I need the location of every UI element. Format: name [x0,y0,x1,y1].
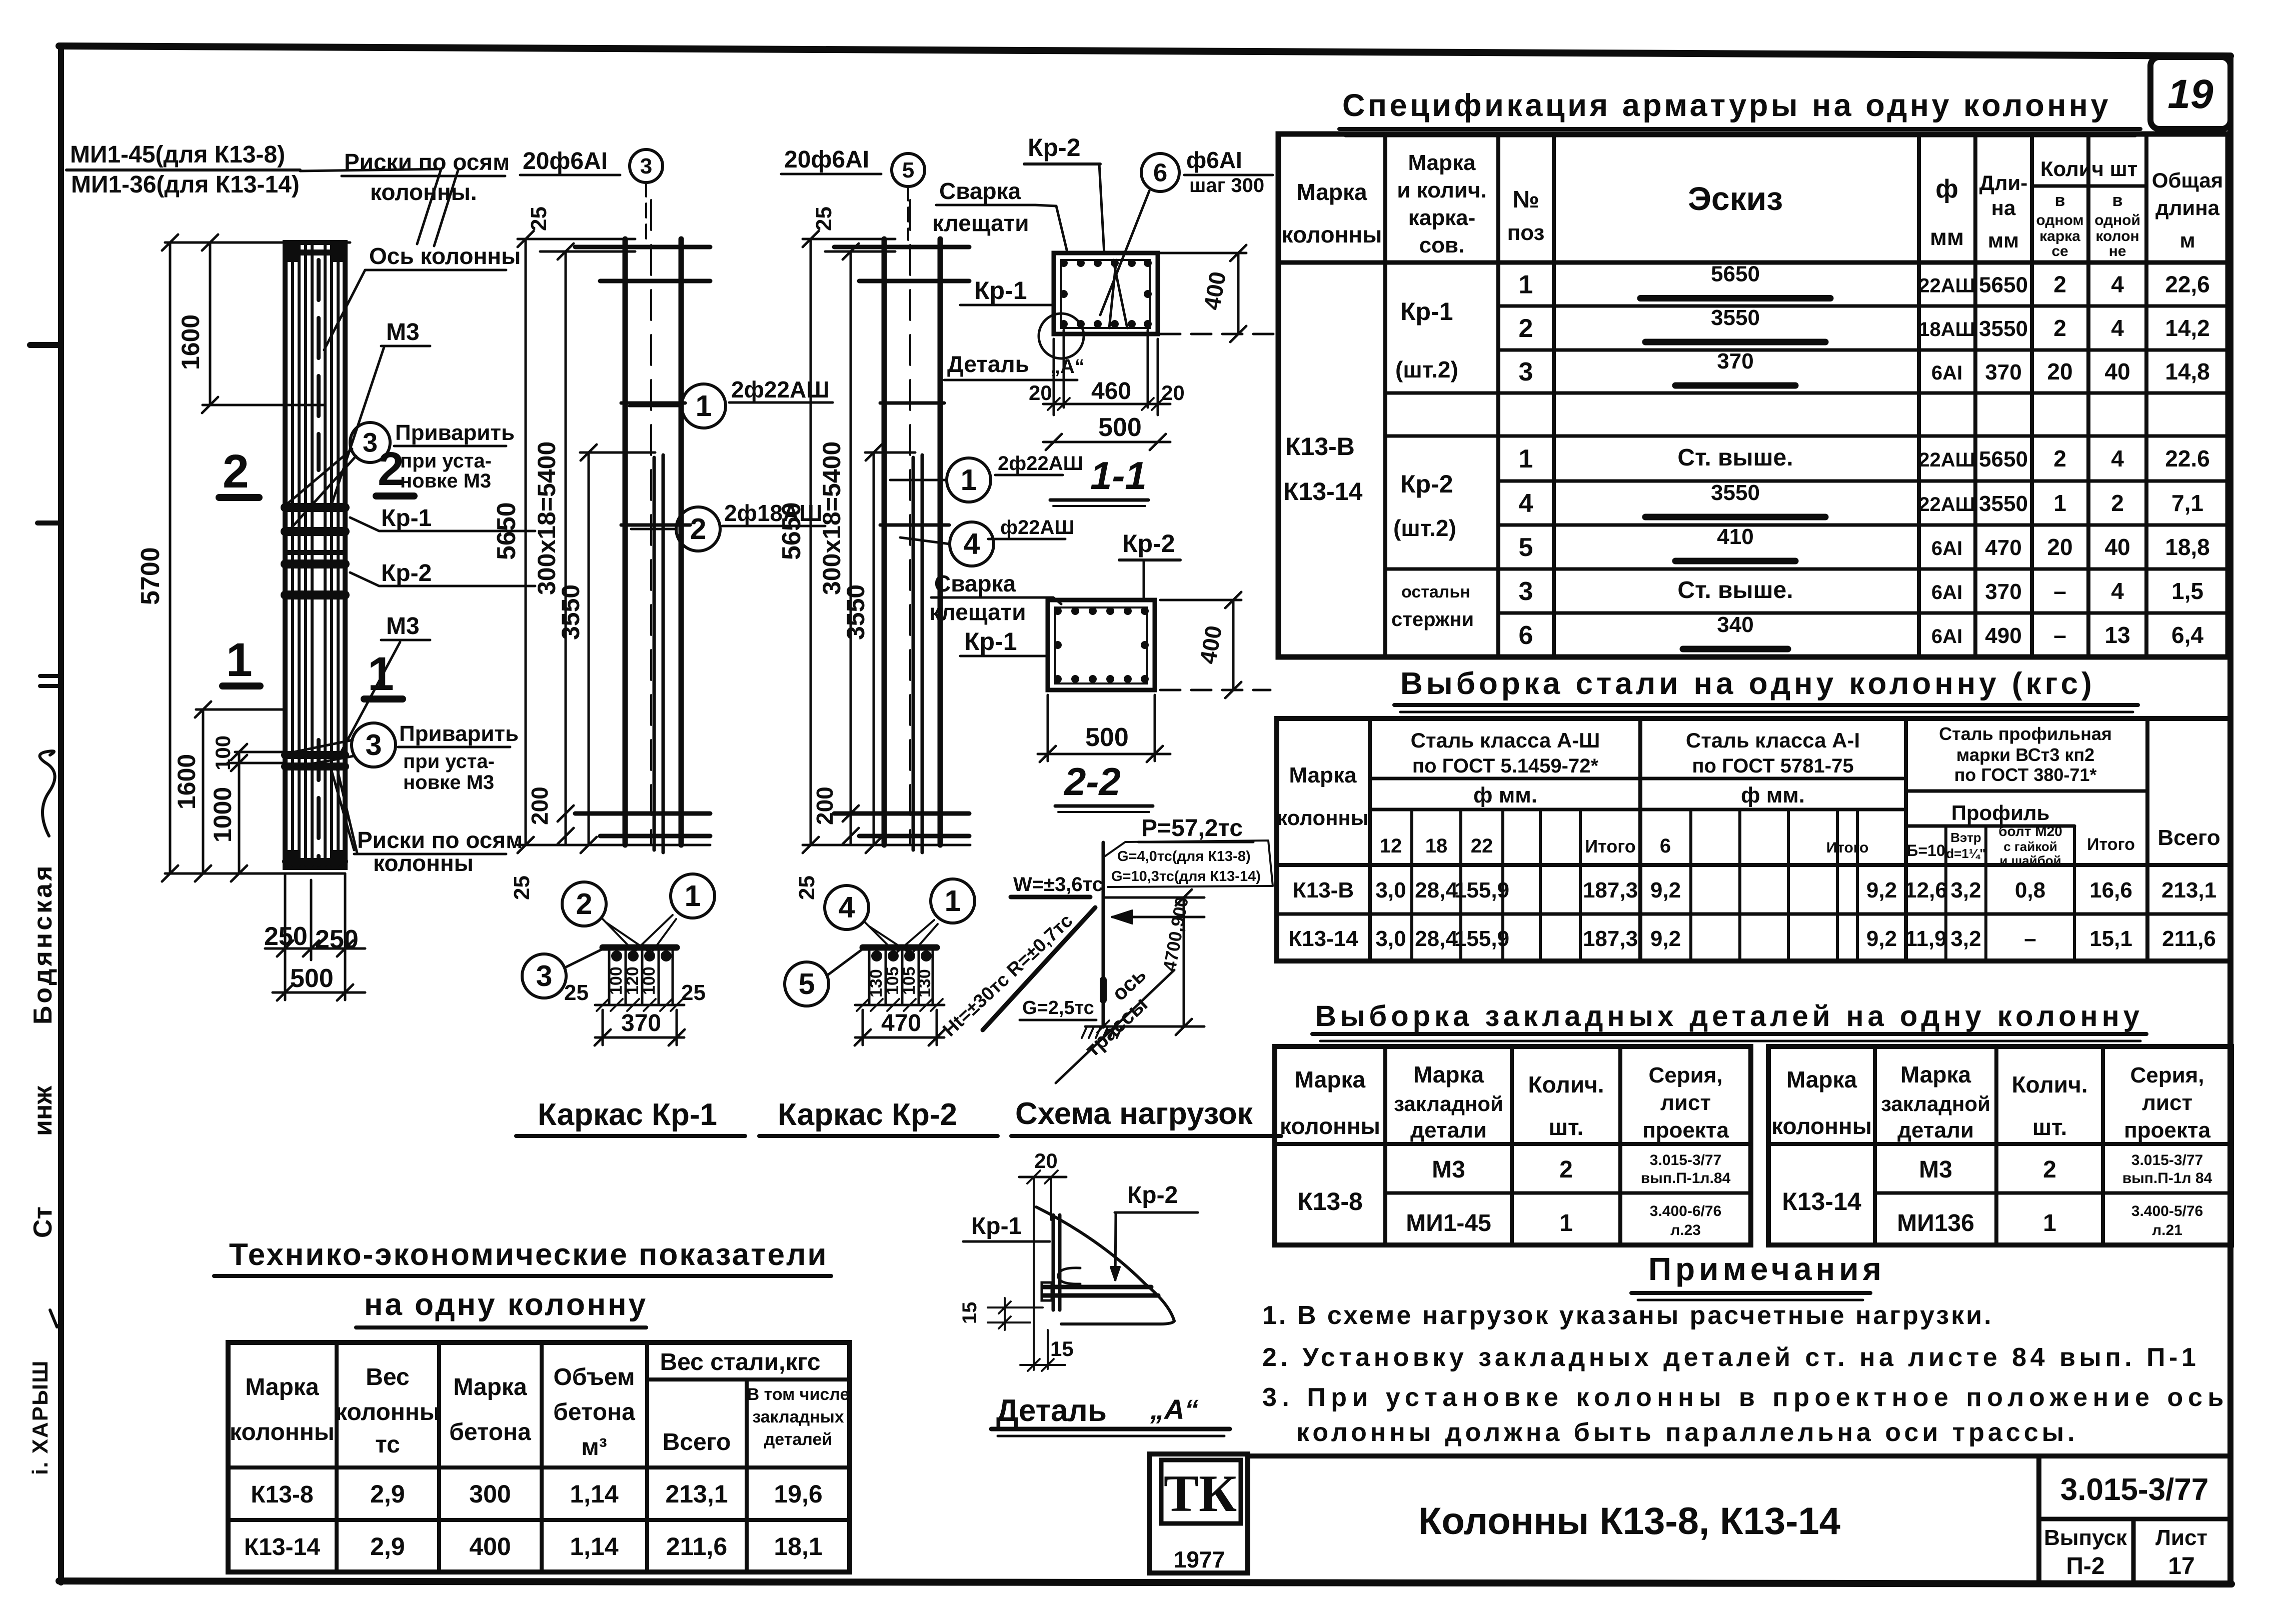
svg-text:Колонны К13-8, К13-14: Колонны К13-8, К13-14 [1418,1500,1840,1542]
svg-text:3.015-3/77: 3.015-3/77 [2131,1152,2203,1168]
svg-text:5: 5 [902,158,914,182]
dim 20 460 20 below 1-1 [1053,339,1055,415]
svg-text:Приварить: Приварить [395,420,515,445]
balloon 3 end view [522,954,566,998]
svg-text:с гайкой: с гайкой [2003,839,2057,854]
spec table header bottom [1278,260,2228,265]
svg-text:сов.: сов. [1419,233,1465,257]
svg-text:МИ1-45: МИ1-45 [1406,1210,1491,1236]
svg-text:4: 4 [1519,489,1533,518]
dimension 500 [273,991,365,994]
svg-text:Общая: Общая [2152,168,2223,192]
column band bottom risk marks [286,858,345,865]
leader lines end view [603,919,633,950]
svg-text:370: 370 [1717,349,1753,373]
svg-text:13: 13 [2104,622,2130,648]
svg-text:4: 4 [2111,445,2124,471]
svg-text:Вэтр: Вэтр [1950,830,1981,845]
detail A reference vertical long [1033,1177,1035,1370]
svg-text:ф мм.: ф мм. [1741,783,1805,807]
column bands Kp zone [285,503,345,512]
svg-text:по ГОСТ 380-71*: по ГОСТ 380-71* [1954,764,2097,785]
svg-text:Кр-1: Кр-1 [974,276,1027,304]
svg-text:6АІ: 6АІ [1931,362,1962,384]
svg-text:болт М20: болт М20 [1998,823,2062,839]
svg-text:6,4: 6,4 [2171,622,2203,648]
svg-text:6АІ: 6АІ [1931,537,1962,559]
svg-text:Марка: Марка [1900,1061,1971,1087]
svg-text:1: 1 [226,633,253,686]
Выборка стали header horizontals [1370,777,1906,780]
svg-text:18,1: 18,1 [774,1532,822,1560]
svg-text:м: м [2179,228,2195,252]
svg-text:марки ВСт3 кп2: марки ВСт3 кп2 [1956,744,2094,765]
svg-text:Сварка: Сварка [939,178,1021,204]
load diagonal Ht [983,907,1095,1030]
svg-text:поз: поз [1507,220,1545,245]
svg-text:ф22АШ: ф22АШ [1000,516,1075,538]
svg-text:Всего: Всего [663,1429,731,1455]
svg-text:9,2: 9,2 [1866,878,1897,902]
svg-text:Деталь: Деталь [996,1393,1107,1428]
svg-text:2: 2 [1519,314,1533,343]
svg-text:колонны должна быть параллельн: колонны должна быть параллельна оси трас… [1296,1418,2078,1447]
svg-text:1: 1 [1559,1210,1573,1236]
svg-text:колонны: колонны [373,850,474,876]
svg-text:2: 2 [2053,271,2066,297]
Кр-2 end view dim 470 [855,1036,944,1039]
svg-text:в: в [2112,191,2123,210]
Выборка стали class header verticals [1368,718,1372,961]
svg-text:одной: одной [2094,212,2140,228]
margin tick 1 [30,342,61,348]
svg-text:Сталь профильная: Сталь профильная [1939,723,2112,744]
svg-text:130: 130 [915,969,934,997]
svg-text:155,9: 155,9 [1454,926,1509,951]
svg-text:Лист: Лист [2155,1525,2207,1550]
svg-text:5: 5 [799,967,815,1000]
svg-text:2: 2 [2111,490,2124,516]
svg-text:Профиль: Профиль [1951,801,2050,824]
svg-text:Итого: Итого [2087,835,2135,854]
svg-text:370: 370 [1985,360,2021,384]
svg-text:остальн: остальн [1401,582,1470,601]
закладные header bottom [1275,1142,1751,1146]
margin signature [40,751,55,836]
section 2-2 outline [1048,600,1155,690]
svg-text:15: 15 [959,1302,981,1324]
svg-text:20: 20 [1161,381,1185,404]
svg-text:200: 200 [812,786,838,825]
svg-text:3: 3 [363,427,378,457]
dim chain Кр-2 300x18 [850,251,852,845]
svg-text:155,9: 155,9 [1454,878,1509,902]
page number box 19 [2150,57,2230,129]
svg-text:Ось колонны: Ось колонны [369,243,521,269]
svg-text:Схема нагрузок: Схема нагрузок [1015,1096,1253,1131]
svg-text:Ст: Ст [29,1206,58,1238]
karkas main bar left [882,239,887,845]
svg-text:на одну колонну: на одну колонну [364,1287,648,1322]
detail A hook [1058,1268,1080,1284]
svg-text:шаг 300: шаг 300 [1189,174,1264,196]
svg-text:Технико-экономические показате: Технико-экономические показатели [229,1237,828,1272]
svg-text:3550: 3550 [1711,305,1760,330]
svg-text:закладных: закладных [752,1407,844,1426]
title block top line [1248,1453,2230,1458]
svg-text:колон: колон [2095,228,2139,244]
svg-text:5650: 5650 [1979,273,2028,297]
svg-text:Риски по осям: Риски по осям [344,149,510,175]
svg-text:К13-14: К13-14 [1782,1187,1861,1215]
svg-text:бетона: бетона [553,1399,635,1425]
dimension 100 bottom [238,752,241,873]
balloon 1 end view Кр-2 [931,879,975,923]
svg-text:Приварить: Приварить [399,721,519,746]
spec group lines col2 [1385,391,1498,395]
svg-text:детали: детали [1897,1118,1974,1142]
detail A Kp-1 bar edge view [1052,1215,1055,1310]
svg-text:клещати: клещати [932,210,1029,236]
karkas crossbar bottom1 [575,811,710,816]
section 1-1 diagonal tie [1113,260,1127,328]
svg-text:3,2: 3,2 [1950,926,1981,951]
svg-text:К13-8: К13-8 [251,1481,313,1508]
svg-text:G=2,5тс: G=2,5тс [1022,997,1094,1018]
svg-text:G=4,0тс(для К13-8): G=4,0тс(для К13-8) [1117,848,1251,864]
load top extension line [1103,896,1204,899]
svg-text:№: № [1512,186,1539,213]
svg-text:100: 100 [640,966,659,995]
svg-text:19,6: 19,6 [774,1480,822,1508]
dim chain Кр-2 5650 [810,239,812,845]
svg-text:Марка: Марка [1296,179,1367,205]
svg-text:3: 3 [640,154,652,178]
svg-text:К13-8: К13-8 [1297,1187,1363,1215]
svg-text:5650: 5650 [777,502,806,560]
svg-text:2,9: 2,9 [370,1480,405,1508]
detail A reference vertical short [1050,1177,1052,1220]
svg-text:1-1: 1-1 [1090,453,1147,497]
svg-text:М3: М3 [386,613,420,639]
svg-text:4: 4 [839,891,855,924]
balloon 1 Кр-1 elev [682,384,726,428]
svg-text:3.015-3/77: 3.015-3/77 [1650,1152,1721,1168]
svg-text:1,14: 1,14 [570,1532,619,1560]
svg-text:22,6: 22,6 [2165,271,2210,297]
svg-text:деталей: деталей [764,1430,833,1449]
dim 500 below 1-1 [1043,441,1170,443]
svg-text:К13-В: К13-В [1285,432,1355,460]
svg-text:5650: 5650 [1979,447,2028,471]
svg-text:5650: 5650 [1711,262,1760,286]
svg-text:новке М3: новке М3 [400,470,491,492]
svg-text:22: 22 [1471,835,1493,857]
svg-text:в: в [2055,191,2065,210]
svg-text:25: 25 [527,206,551,231]
svg-text:5: 5 [1519,533,1533,562]
svg-text:15,1: 15,1 [2089,926,2132,951]
svg-text:300x18=5400: 300x18=5400 [818,441,846,595]
karkas inner bars pos2 [653,457,656,850]
svg-text:Сталь класса А-І: Сталь класса А-І [1686,728,1860,752]
svg-text:Дли-: Дли- [1979,171,2027,194]
leader from МИ labels to column top [300,169,441,171]
load axis trassy diagonal [1056,970,1174,1083]
svg-text:1: 1 [2053,490,2066,516]
svg-text:3550: 3550 [1979,316,2028,341]
svg-text:одном: одном [2036,212,2083,228]
svg-text:Всего: Всего [2157,825,2220,850]
svg-text:3.400-5/76: 3.400-5/76 [2131,1203,2203,1219]
svg-text:карка: карка [2039,228,2080,244]
svg-text:28,4: 28,4 [1415,926,1458,951]
margin tick 2 [38,520,61,525]
dim chain Кр-1 300x18 [565,251,567,845]
svg-text:Выпуск: Выпуск [2044,1525,2127,1550]
balloon 6 [1141,153,1179,191]
title block right box [2036,1456,2041,1581]
svg-text:3550: 3550 [1979,491,2028,516]
svg-text:1: 1 [1519,270,1533,299]
svg-text:Кр-1: Кр-1 [381,505,432,531]
svg-text:М3: М3 [1919,1156,1952,1183]
svg-text:„А“: „А“ [1050,355,1085,377]
dim chain Кр-2 3550 [873,452,875,845]
ТЭП table verticals [335,1342,339,1572]
svg-text:19: 19 [2167,71,2213,117]
svg-text:20: 20 [1034,1149,1058,1172]
svg-text:25: 25 [510,875,534,900]
svg-text:9,2: 9,2 [1866,926,1897,951]
svg-text:2: 2 [2053,445,2066,471]
svg-text:17: 17 [2168,1553,2194,1579]
load ground line and hatch [1085,1025,1204,1028]
svg-text:7,1: 7,1 [2171,490,2203,516]
svg-text:вып.П-1л.84: вып.П-1л.84 [1641,1170,1731,1186]
svg-text:мм: мм [1988,228,2019,252]
svg-text:d=1¼": d=1¼" [1946,846,1986,861]
svg-text:18АШ: 18АШ [1918,318,1975,340]
column hatch lines [291,245,294,865]
svg-text:Кр-1: Кр-1 [971,1213,1022,1239]
svg-text:213,1: 213,1 [665,1480,728,1508]
svg-text:Ст. выше.: Ст. выше. [1677,444,1793,471]
svg-text:Сварка: Сварка [934,570,1016,596]
spec table outer [1278,134,2228,657]
svg-text:400: 400 [469,1532,511,1560]
dim 400 right of 1-1 [1237,253,1240,334]
svg-text:колонны: колонны [1282,221,1382,247]
balloon 2 Кр-1 elev [676,507,720,551]
закладные header bottom [1768,1142,2231,1146]
balloon 3 upper Приварить [350,422,390,462]
svg-text:187,3: 187,3 [1583,926,1638,951]
section 1-1 stirrup inner [1061,260,1150,328]
svg-text:1977: 1977 [1174,1546,1225,1572]
svg-text:18,8: 18,8 [2165,534,2210,560]
svg-text:200: 200 [527,786,553,825]
svg-text:500: 500 [1098,413,1142,442]
svg-text:Итого: Итого [1585,836,1636,856]
svg-text:500: 500 [1085,723,1129,752]
svg-text:12,6: 12,6 [1904,878,1947,902]
column top edge mark [287,249,343,255]
svg-text:3,0: 3,0 [1375,878,1406,902]
karkas axis dashed [650,200,652,845]
svg-text:20ф6АІ: 20ф6АІ [523,148,608,174]
karkas crossbar top1 [575,245,710,249]
svg-text:4: 4 [2111,578,2124,604]
svg-text:лист: лист [2142,1090,2192,1115]
svg-text:14,8: 14,8 [2165,358,2210,384]
svg-text:2ф18АШ: 2ф18АШ [724,500,822,526]
закладные mid row line [1875,1191,2231,1195]
svg-text:300: 300 [469,1480,511,1508]
Кр-1 end view dim 370 [595,1036,684,1039]
Выборка стали outer [1277,718,2230,961]
svg-text:Кр-2: Кр-2 [1127,1182,1178,1208]
svg-text:МИ1-45(для К13-8): МИ1-45(для К13-8) [70,141,285,168]
column top corner risk marks [286,244,299,262]
svg-text:20: 20 [2047,534,2072,560]
detail A dim 15 bottom [1047,1330,1049,1369]
dimension 1000 bottom [231,865,247,881]
leader lines Кр-2 end view [865,922,895,952]
svg-text:Марка: Марка [1408,150,1476,175]
svg-text:4: 4 [2111,271,2124,297]
svg-text:–: – [2053,622,2066,648]
svg-text:28,4: 28,4 [1415,878,1458,902]
detail A end plate [1042,1282,1052,1300]
svg-text:колонны: колонны [335,1399,440,1425]
svg-text:1,5: 1,5 [2171,578,2203,604]
load G1 box outline [1105,840,1273,887]
svg-text:Серия,: Серия, [2130,1063,2204,1087]
sheet border frame [59,46,2230,56]
svg-text:тс: тс [375,1431,400,1458]
svg-text:закладной: закладной [1881,1092,1990,1115]
svg-text:ф6АІ: ф6АІ [1186,147,1242,173]
svg-text:Риски по осям: Риски по осям [357,827,523,853]
svg-text:м³: м³ [581,1434,607,1460]
svg-text:Выборка стали на одну колонну: Выборка стали на одну колонну (кгс) [1400,666,2095,701]
svg-text:1: 1 [2043,1210,2056,1236]
extension lines for 5700 [165,241,350,244]
svg-text:25: 25 [812,206,836,231]
column band M3 upper [286,550,344,555]
svg-text:клещати: клещати [929,599,1026,625]
svg-text:не: не [2109,243,2126,259]
Кр-2 end view section [863,944,937,951]
svg-text:детали: детали [1410,1118,1487,1142]
dim 500 below 2-2 [1038,753,1170,755]
balloon 5 top [892,153,925,186]
karkas crossbar mid1 [880,401,944,405]
svg-text:2: 2 [690,512,707,545]
dimension 1600 bottom [202,709,205,873]
karkas crossbar top1 [834,245,969,249]
svg-text:2. Установку закладных деталей: 2. Установку закладных деталей ст. на ли… [1262,1343,2199,1372]
svg-text:3550: 3550 [1711,480,1760,505]
svg-text:15: 15 [1050,1337,1074,1360]
detail A concrete curve [1036,1207,1174,1321]
svg-text:„А“: „А“ [1150,1393,1198,1425]
svg-text:20ф6АІ: 20ф6АІ [784,146,869,173]
karkas main bar right [679,239,684,845]
dim 400 right of 2-2 [1232,600,1235,690]
svg-text:–: – [2024,926,2036,951]
svg-text:Бодянская: Бодянская [29,863,58,1024]
svg-text:Каркас Кр-2: Каркас Кр-2 [778,1097,957,1132]
svg-text:МИ1-36(для К13-14): МИ1-36(для К13-14) [71,171,300,198]
svg-text:закладной: закладной [1394,1092,1503,1115]
svg-text:Ст. выше.: Ст. выше. [1677,577,1793,603]
svg-text:(шт.2): (шт.2) [1395,356,1458,382]
balloon 1 end view [671,874,715,918]
svg-text:Марка: Марка [453,1374,527,1400]
svg-text:2: 2 [2043,1156,2056,1183]
svg-text:G=10,3тс(для К13-14): G=10,3тс(для К13-14) [1111,868,1261,884]
svg-text:25: 25 [564,980,589,1005]
svg-text:6АІ: 6АІ [1931,625,1962,647]
svg-text:Примечания: Примечания [1648,1251,1885,1287]
svg-text:3550: 3550 [557,584,585,640]
svg-text:Выборка закладных деталей на о: Выборка закладных деталей на одну колонн… [1315,1000,2143,1032]
margin tick 3 double [40,674,61,678]
svg-text:лист: лист [1660,1090,1711,1115]
svg-text:1: 1 [696,389,712,422]
svg-text:370: 370 [1985,579,2021,604]
section 1-1 outline [1054,253,1158,334]
svg-text:Каркас Кр-1: Каркас Кр-1 [538,1097,717,1132]
svg-text:колонны: колонны [1280,1113,1380,1139]
detail A bottom concrete line [1061,1321,1174,1324]
svg-text:по ГОСТ 5781-75: по ГОСТ 5781-75 [1692,755,1853,777]
svg-text:по ГОСТ 5.1459-72*: по ГОСТ 5.1459-72* [1412,755,1599,777]
svg-text:18: 18 [1425,835,1448,857]
ТК stamp inner box [1161,1460,1241,1523]
svg-text:6АІ: 6АІ [1931,581,1962,603]
load axis vertical [1102,842,1105,1027]
svg-text:2-2: 2-2 [1063,759,1121,803]
svg-text:250: 250 [264,922,308,951]
svg-text:(шт.2): (шт.2) [1393,515,1456,541]
detail circle A on section 1-1 [1039,313,1084,358]
svg-text:проекта: проекта [1642,1118,1729,1142]
svg-text:2: 2 [1559,1156,1573,1183]
ТЭП table horizontals [228,1465,850,1469]
svg-text:1: 1 [1519,444,1533,473]
svg-text:К13-14: К13-14 [1283,477,1363,505]
svg-text:3: 3 [536,959,553,992]
svg-text:колонны: колонны [230,1419,335,1445]
svg-text:л.23: л.23 [1670,1222,1701,1238]
svg-text:2ф22АШ: 2ф22АШ [731,376,829,402]
spec table row horizontals [1498,304,2228,308]
svg-text:колонны: колонны [1771,1113,1872,1139]
svg-text:250: 250 [315,925,359,954]
detail A dim 15 left [988,1306,1043,1308]
svg-text:2: 2 [223,445,249,498]
svg-text:Марка: Марка [1289,763,1357,787]
svg-text:40: 40 [2104,534,2130,560]
dimension 250 250 [284,873,287,960]
svg-text:3: 3 [1519,357,1533,386]
dim chain Кр-1 3550 [588,452,590,845]
karkas crossbar mid2 [880,523,949,527]
karkas crossbar mid1 [621,401,685,405]
